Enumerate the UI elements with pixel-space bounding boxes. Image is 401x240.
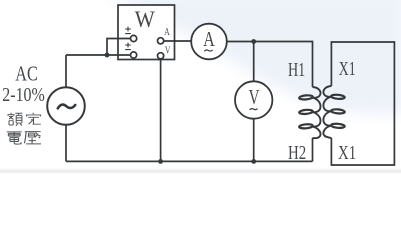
svg-text:AC: AC: [15, 62, 38, 86]
svg-text:H2: H2: [288, 142, 306, 164]
svg-text:H1: H1: [288, 59, 305, 81]
svg-text:A: A: [164, 27, 170, 38]
svg-text:V: V: [249, 85, 260, 109]
svg-text:V: V: [165, 45, 171, 56]
svg-text:2-10%: 2-10%: [2, 84, 45, 106]
svg-text:W: W: [135, 7, 155, 32]
svg-text:A: A: [203, 27, 215, 51]
svg-text:X1: X1: [339, 58, 356, 80]
svg-text:X1: X1: [338, 142, 356, 164]
